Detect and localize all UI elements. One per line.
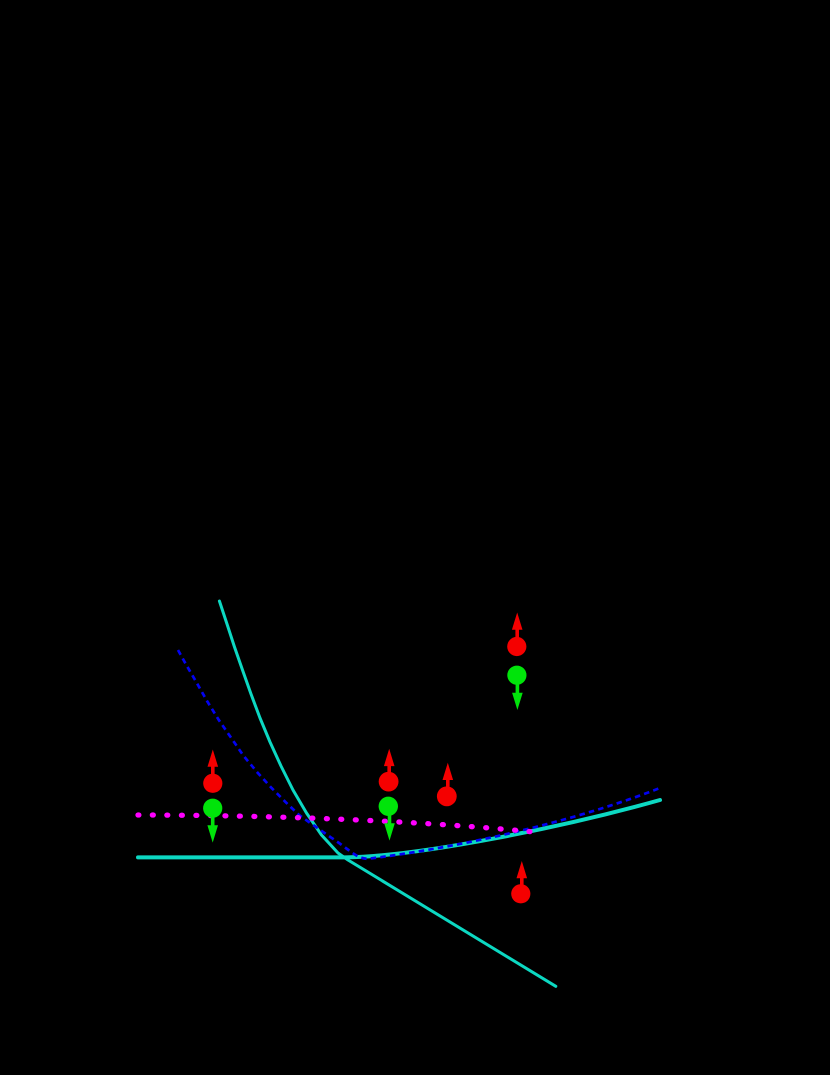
curve: magenta dotted nearly-horizontal line bbox=[138, 815, 530, 832]
curve: cyan horizontal line rising to the right (curve B) bbox=[138, 800, 660, 857]
marker pair 2: red point with up arrow at x=389 bbox=[379, 749, 399, 792]
marker 5: lone red point with up arrow at x=521 bbox=[511, 861, 530, 903]
curve: blue dashed curve, steep fall then rise bbox=[178, 650, 660, 859]
marker pair 4: red point with up arrow at x=517 bbox=[507, 613, 526, 657]
curve: cyan steep falling curve continuing as straight diagonal (curve A) bbox=[219, 601, 555, 986]
marker pair 4: green point with down arrow at x=517 bbox=[507, 666, 526, 710]
marker pair 1: green point with down arrow at x=213 bbox=[203, 799, 222, 843]
marker pair 1: red point with up arrow at x=213 bbox=[203, 750, 222, 793]
marker 3: lone red point with up arrow at x=447 bbox=[437, 763, 457, 806]
marker pair 2: green point with down arrow at x=389 bbox=[379, 797, 398, 841]
